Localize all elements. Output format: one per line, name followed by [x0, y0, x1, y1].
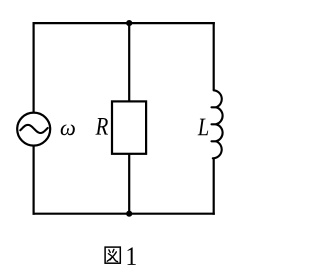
junction node bottom [126, 211, 132, 217]
wire left lower segment [32, 145, 34, 214]
wire left upper segment [32, 22, 34, 113]
caption kanji ZU (figure) outer box [105, 247, 120, 263]
inductor L coil loops [213, 90, 223, 158]
resistor R body [112, 101, 146, 153]
wire bottom horizontal [33, 213, 215, 215]
caption kanji ZU inner strokes [107, 249, 117, 261]
inductor cusp tick 1 [212, 106, 217, 108]
AC source sine symbol [20, 125, 47, 133]
label omega (source value) [61, 124, 75, 135]
caption figure number 1 [128, 247, 136, 264]
wire middle lower segment [128, 154, 130, 214]
junction node top [126, 20, 132, 26]
inductor cusp tick 2 [212, 123, 217, 125]
wire right lower segment [213, 158, 215, 215]
AC source V1 circle [17, 113, 50, 146]
wire right upper segment [213, 22, 215, 91]
inductor cusp tick 3 [212, 140, 217, 142]
label R [95, 118, 107, 135]
label L [198, 119, 209, 136]
wire top horizontal [33, 22, 215, 24]
wire middle upper segment [128, 23, 130, 101]
